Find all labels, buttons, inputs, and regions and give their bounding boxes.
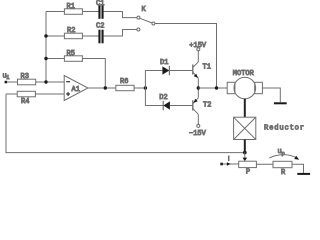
wire	[88, 87, 116, 89]
wire	[104, 30, 137, 37]
shaft	[244, 140, 246, 153]
svg-text:R3: R3	[21, 73, 29, 81]
svg-text:T1: T1	[203, 64, 211, 72]
voltage arrow up	[269, 148, 299, 160]
svg-text:R4: R4	[21, 98, 29, 106]
svg-text:+15V: +15V	[189, 42, 207, 50]
svg-text:−15V: −15V	[189, 130, 207, 138]
gearbox Reductor	[234, 117, 305, 139]
wire	[262, 88, 280, 102]
diode D2	[159, 94, 170, 110]
svg-text:A1: A1	[72, 86, 80, 94]
svg-text:P: P	[246, 169, 250, 177]
svg-text:Reductor: Reductor	[264, 125, 305, 133]
svg-text:R5: R5	[67, 50, 75, 58]
resistor R3	[18, 73, 36, 85]
wire	[134, 87, 145, 89]
wire	[46, 58, 64, 60]
resistor R2	[64, 27, 82, 39]
wire feedback	[6, 94, 245, 153]
svg-text:T2: T2	[203, 102, 211, 110]
power +15V	[189, 42, 207, 51]
wire	[197, 51, 199, 62]
svg-text:R: R	[281, 169, 286, 176]
wire	[6, 93, 17, 95]
wire	[169, 70, 192, 72]
svg-text:C2: C2	[96, 22, 104, 30]
wire	[82, 35, 98, 37]
wire	[197, 114, 199, 124]
transistor T2	[193, 98, 212, 114]
svg-text:R6: R6	[120, 78, 128, 86]
wire	[197, 88, 199, 98]
wire	[198, 87, 227, 89]
junction	[44, 57, 47, 60]
capacitor C1	[96, 0, 104, 19]
switch K	[137, 6, 155, 31]
potentiometer P	[239, 161, 257, 176]
wire	[104, 12, 137, 18]
ground	[274, 102, 287, 104]
wire diode bus	[145, 71, 162, 106]
current arrow i	[227, 155, 231, 166]
wire	[46, 35, 64, 37]
junction	[144, 86, 147, 89]
motor M	[227, 70, 262, 99]
wire	[82, 11, 98, 13]
resistor R4	[17, 91, 35, 106]
node ui input terminal	[3, 73, 11, 84]
junction	[104, 86, 107, 89]
svg-text:p: p	[282, 150, 285, 157]
wire	[155, 24, 217, 89]
power -15V	[189, 124, 207, 138]
svg-text:MOTOR: MOTOR	[233, 70, 255, 78]
svg-text:R2: R2	[67, 27, 75, 35]
svg-text:D1: D1	[160, 59, 168, 67]
ground	[297, 173, 310, 175]
wire	[256, 163, 273, 165]
wire	[36, 81, 64, 83]
svg-text:D2: D2	[159, 94, 167, 102]
resistor R6	[116, 78, 134, 91]
junction	[197, 86, 200, 89]
shaft	[244, 99, 246, 117]
wire	[82, 59, 105, 89]
svg-text:i: i	[228, 155, 229, 162]
capacitor C2	[96, 22, 104, 43]
diode D1	[160, 59, 169, 75]
wire	[197, 78, 199, 88]
transistor T1	[193, 62, 211, 78]
svg-text:i: i	[6, 74, 10, 81]
wire	[35, 93, 64, 95]
wire	[46, 11, 64, 13]
node input bus	[45, 12, 47, 83]
wire	[223, 163, 239, 165]
node terminal	[220, 163, 223, 166]
resistor R1	[64, 3, 82, 14]
junction	[215, 86, 218, 89]
resistor R5	[64, 50, 82, 61]
junction	[243, 151, 247, 155]
junction	[44, 80, 47, 83]
resistor R	[273, 161, 292, 177]
svg-text:C1: C1	[96, 0, 104, 8]
svg-text:R1: R1	[67, 3, 75, 11]
wire	[7, 81, 17, 83]
wire	[170, 105, 192, 107]
svg-text:K: K	[142, 6, 147, 14]
wiper arrow	[243, 153, 248, 162]
wire	[292, 164, 304, 173]
op-amp A1	[64, 76, 88, 101]
junction	[44, 34, 47, 37]
